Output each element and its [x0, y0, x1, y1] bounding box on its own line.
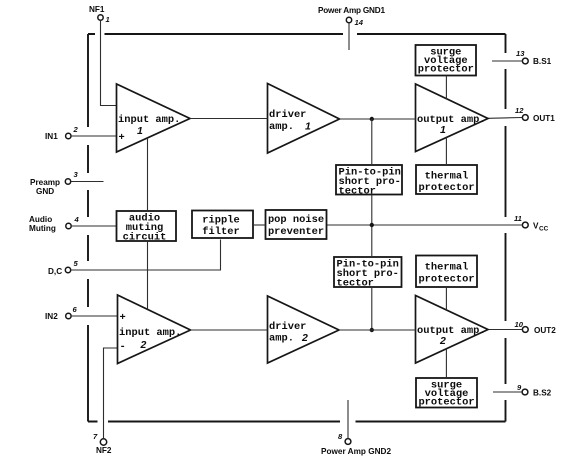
- block thermal protector (lower): [416, 256, 477, 288]
- svg-text:output amp.: output amp.: [417, 325, 486, 337]
- svg-text:NF1: NF1: [89, 5, 105, 14]
- svg-text:OUT2: OUT2: [534, 326, 556, 335]
- block pop noise preventer: [266, 210, 327, 239]
- svg-text:2: 2: [73, 125, 79, 134]
- pin 2 IN1 terminal: [45, 125, 79, 141]
- svg-text:driver: driver: [269, 321, 306, 333]
- pin 6 IN2 terminal: [45, 305, 78, 321]
- svg-text:amp.: amp.: [269, 121, 294, 133]
- svg-text:1: 1: [440, 124, 446, 136]
- wire D,C to ripple filter: [71, 240, 221, 271]
- op-amp driver amp 1: [268, 84, 340, 154]
- junction node on Vcc rail: [370, 223, 374, 227]
- IC package outline border (with breaks at pin wires): [88, 34, 506, 422]
- svg-text:input amp.: input amp.: [118, 114, 180, 126]
- svg-text:B.S2: B.S2: [533, 389, 552, 398]
- wire input amp 2 output to driver amp 2: [191, 329, 268, 331]
- wire audio muting circuit to input amp 2: [147, 242, 149, 310]
- svg-text:1: 1: [137, 125, 143, 137]
- svg-text:tector: tector: [337, 278, 374, 290]
- svg-text:thermal: thermal: [425, 262, 469, 274]
- svg-text:CC: CC: [539, 226, 549, 233]
- wire Audio Muting to audio muting circuit: [71, 225, 116, 227]
- svg-text:output amp.: output amp.: [417, 114, 486, 126]
- svg-text:Power Amp GND1: Power Amp GND1: [318, 6, 385, 15]
- wire NF2 to input amp 2 inverting input: [104, 348, 118, 439]
- svg-text:OUT1: OUT1: [533, 114, 555, 123]
- svg-text:protector: protector: [418, 274, 474, 286]
- svg-text:D,C: D,C: [48, 267, 62, 276]
- wire input amp 1 output to driver amp 1: [190, 118, 268, 120]
- block surge voltage protector (lower): [416, 378, 477, 409]
- svg-text:NF2: NF2: [96, 446, 112, 455]
- svg-text:amp.: amp.: [269, 333, 294, 345]
- svg-text:-: -: [120, 341, 126, 353]
- wire output amp 1 to thermal protector upper: [445, 138, 447, 166]
- pin 13 B.S1 terminal: [516, 49, 552, 66]
- pin 7 NF2 terminal: [93, 432, 112, 455]
- svg-text:Muting: Muting: [29, 224, 56, 233]
- svg-text:thermal: thermal: [425, 171, 469, 183]
- svg-text:preventer: preventer: [268, 226, 324, 238]
- svg-text:+: +: [119, 132, 125, 144]
- svg-text:12: 12: [515, 106, 524, 115]
- wire driver amp 2 output to output amp 2: [339, 329, 416, 331]
- wire surge voltage protector upper to output amp 1: [445, 76, 447, 100]
- svg-text:driver: driver: [269, 109, 306, 121]
- svg-text:2: 2: [301, 332, 308, 344]
- svg-text:protector: protector: [418, 182, 474, 194]
- svg-text:tector: tector: [339, 186, 376, 198]
- svg-text:Preamp: Preamp: [30, 178, 60, 187]
- wire Preamp GND stub: [71, 181, 104, 183]
- svg-text:input amp.: input amp.: [119, 327, 181, 339]
- svg-text:ripple: ripple: [202, 215, 239, 227]
- svg-text:13: 13: [516, 49, 525, 58]
- wire NF1 to input amp 1 inverting input: [101, 20, 117, 105]
- svg-text:pop noise: pop noise: [268, 214, 324, 226]
- op-amp output amp 1: [416, 84, 489, 152]
- wire Power Amp GND2 stub: [347, 400, 349, 438]
- svg-text:2: 2: [140, 339, 147, 351]
- pin 5 D,C terminal: [48, 259, 79, 276]
- svg-text:circuit: circuit: [123, 232, 167, 244]
- svg-text:14: 14: [355, 18, 364, 27]
- svg-text:IN1: IN1: [45, 132, 58, 141]
- svg-text:B.S1: B.S1: [533, 57, 552, 66]
- svg-text:11: 11: [514, 214, 522, 223]
- wire driver amp 1 output to output amp 1: [340, 118, 416, 120]
- block ripple filter: [192, 211, 253, 239]
- op-amp input amp 1: [117, 84, 191, 152]
- svg-text:1: 1: [305, 121, 311, 133]
- wire ripple filter to pop noise preventer: [253, 224, 266, 226]
- op-amp output amp 2: [416, 296, 489, 364]
- wire thermal protector lower to output amp 2: [445, 287, 447, 310]
- svg-text:protector: protector: [418, 397, 474, 409]
- wire vertical protector bus upper: [371, 119, 373, 165]
- pin 1 NF1 terminal: [89, 5, 110, 24]
- svg-text:2: 2: [439, 335, 446, 347]
- wire IN2 to input amp 2 non-inverting input: [71, 315, 117, 317]
- svg-text:Audio: Audio: [29, 215, 52, 224]
- junction node at driver amp 1 output: [370, 117, 374, 121]
- junction node at driver amp 2 output: [370, 328, 374, 332]
- pin 14 Power Amp GND1 terminal: [318, 6, 385, 27]
- block pin-to-pin short protector (lower): [334, 257, 402, 290]
- op-amp input amp 2: [118, 295, 191, 364]
- pin 4 Audio Muting terminal: [29, 215, 80, 233]
- wire output amp 1 to OUT1: [488, 117, 522, 120]
- wire output amp 2 to OUT2: [488, 329, 522, 331]
- wire B.S2 stub: [493, 391, 522, 393]
- svg-text:IN2: IN2: [45, 312, 58, 321]
- block thermal protector (upper): [416, 165, 477, 194]
- svg-text:+: +: [120, 312, 126, 324]
- block surge voltage protector (upper): [416, 45, 477, 76]
- block audio muting circuit: [117, 211, 177, 244]
- svg-text:1: 1: [106, 15, 110, 24]
- wire input amp 1 to audio muting circuit: [147, 138, 149, 210]
- wire vertical protector bus middle: [371, 195, 373, 258]
- wire Vcc rail from pop noise preventer to pin 11: [327, 224, 523, 226]
- svg-text:4: 4: [74, 215, 80, 224]
- wire vertical protector bus lower: [371, 287, 373, 330]
- wire Power Amp GND1 stub: [348, 23, 350, 50]
- op-amp driver amp 2: [268, 296, 340, 363]
- svg-text:GND: GND: [36, 187, 54, 196]
- pin 9 B.S2 terminal: [517, 383, 552, 398]
- svg-text:protector: protector: [418, 64, 474, 76]
- pin 10 OUT2 terminal: [515, 320, 557, 335]
- svg-text:Power Amp GND2: Power Amp GND2: [321, 447, 391, 456]
- pin 11 Vcc terminal: [514, 214, 549, 233]
- pin 3 Preamp GND terminal: [30, 170, 79, 196]
- wire IN1 to input amp 1 non-inverting input: [71, 135, 117, 137]
- block pin-to-pin short protector (upper): [336, 165, 402, 198]
- svg-text:filter: filter: [202, 226, 239, 238]
- wire B.S1 stub: [492, 60, 522, 62]
- pin 8 Power Amp GND2 terminal: [321, 432, 391, 456]
- wire output amp 2 to surge voltage protector lower: [445, 349, 447, 379]
- pin 12 OUT1 terminal: [515, 106, 555, 123]
